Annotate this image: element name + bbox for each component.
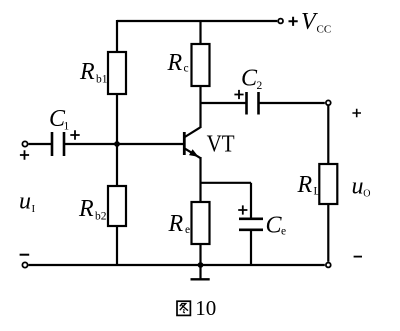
svg-text:e: e — [281, 226, 286, 238]
svg-text:u: u — [19, 189, 31, 215]
svg-text:10: 10 — [195, 296, 216, 320]
svg-text:b1: b1 — [96, 74, 108, 86]
svg-text:V: V — [301, 9, 318, 35]
svg-text:R: R — [78, 196, 94, 222]
svg-text:C: C — [266, 213, 283, 239]
svg-text:R: R — [297, 172, 313, 198]
svg-text:R: R — [79, 59, 95, 85]
svg-text:L: L — [314, 186, 321, 198]
svg-text:O: O — [363, 189, 370, 200]
svg-text:1: 1 — [64, 121, 70, 133]
svg-text:u: u — [352, 174, 364, 200]
svg-text:c: c — [184, 63, 189, 75]
svg-text:CC: CC — [317, 24, 332, 36]
svg-text:VT: VT — [207, 132, 235, 158]
svg-text:R: R — [167, 50, 183, 76]
svg-text:e: e — [185, 224, 190, 236]
svg-text:b2: b2 — [95, 211, 107, 223]
svg-text:I: I — [32, 203, 36, 215]
svg-text:R: R — [168, 211, 184, 237]
svg-text:C: C — [241, 66, 258, 92]
svg-text:2: 2 — [257, 80, 263, 92]
